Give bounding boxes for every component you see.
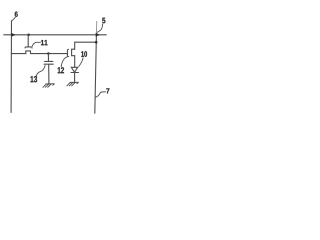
node: junction dot wire A / C13 bbox=[47, 52, 50, 55]
leader line for label 12 bbox=[61, 57, 67, 67]
capacitor C13 bottom plate bbox=[44, 63, 53, 65]
leader line for label 7 bbox=[95, 92, 106, 98]
label 12 bbox=[58, 67, 64, 73]
wire: C13 top lead bbox=[47, 54, 49, 62]
ground under C13 bbox=[43, 84, 55, 87]
wire: Q11 gate lead bbox=[27, 35, 29, 47]
transistor Q12 gate bar bbox=[67, 49, 68, 56]
wire: row wire A left segment (data line to Q11) bbox=[11, 53, 25, 55]
leader line for label 5 bbox=[97, 24, 102, 32]
label 7 bbox=[106, 88, 109, 93]
transistor Q11 channel bump bbox=[26, 51, 31, 54]
ground under OLED bbox=[67, 82, 79, 85]
wire: C13 bottom lead bbox=[48, 64, 50, 84]
wire: Q12 source down to OLED bbox=[74, 56, 76, 68]
wire: Q12 drain up and over to power line bbox=[75, 42, 97, 49]
transistor Q11 gate bar bbox=[25, 47, 32, 48]
capacitor C13 top plate bbox=[45, 60, 53, 62]
label 11 bbox=[41, 40, 48, 45]
wire: horizontal scan line bus bbox=[4, 34, 107, 36]
label 13 bbox=[31, 76, 38, 82]
label 5 bbox=[102, 18, 105, 24]
diode D10 (OLED) anode triangle bbox=[71, 67, 77, 72]
node: junction dot Q12 drain / power line bbox=[95, 41, 98, 44]
wire: OLED cathode to ground bbox=[74, 73, 76, 83]
transistor Q12 channel bump bbox=[72, 49, 75, 56]
diode D10 cathode bar bbox=[71, 72, 79, 74]
arrowhead on scan line at left vertical line crossing bbox=[12, 33, 16, 36]
label 10 bbox=[81, 51, 87, 57]
leader line for label 10 bbox=[79, 58, 83, 67]
wire: right power line 5 faint upper stub bbox=[95, 22, 97, 34]
arrowhead on scan line at right vertical line crossing bbox=[96, 33, 100, 36]
label 6 bbox=[15, 12, 18, 17]
leader line for label 13 bbox=[36, 66, 45, 76]
wire: left data line 6 (vertical) bbox=[10, 21, 12, 113]
wire: row wire A right segment (Q11 to Q12 gate) bbox=[31, 53, 68, 55]
leader line for label 6 bbox=[12, 17, 15, 20]
node: junction dot scan line / Q11 gate lead bbox=[27, 34, 30, 37]
wire: right power line 5 (vertical) bbox=[95, 33, 97, 113]
leader line for label 11 bbox=[32, 42, 40, 46]
